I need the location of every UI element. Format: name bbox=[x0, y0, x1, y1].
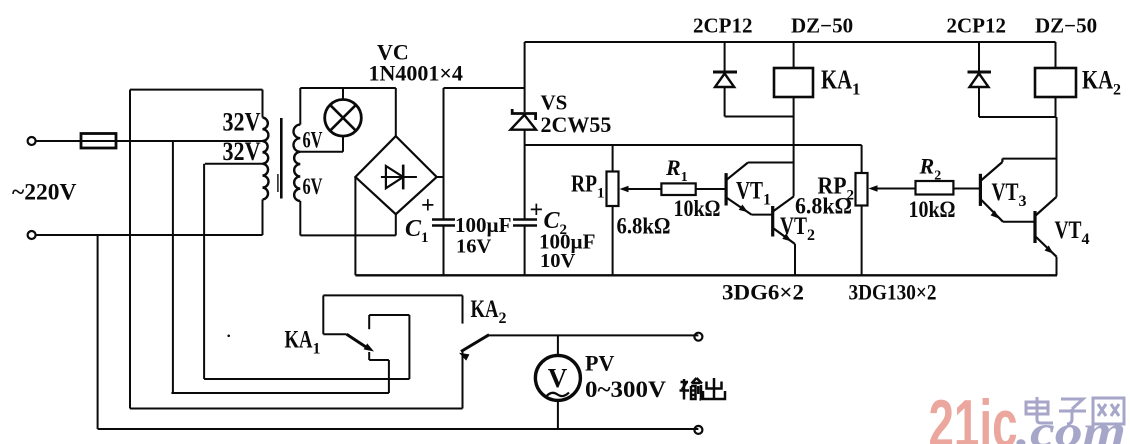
svg-text:PV: PV bbox=[585, 351, 614, 376]
svg-text:2CP12: 2CP12 bbox=[947, 14, 1007, 38]
svg-text:32V: 32V bbox=[223, 137, 261, 166]
svg-text:~220V: ~220V bbox=[12, 180, 76, 206]
svg-text:0~300V: 0~300V bbox=[585, 377, 666, 402]
svg-text:DZ−50: DZ−50 bbox=[791, 14, 853, 38]
svg-text:10kΩ: 10kΩ bbox=[674, 196, 721, 221]
svg-text:6.8kΩ: 6.8kΩ bbox=[617, 214, 671, 239]
svg-text:6V: 6V bbox=[303, 128, 323, 153]
svg-text:3DG6×2: 3DG6×2 bbox=[722, 280, 804, 305]
svg-text:+: + bbox=[421, 193, 435, 219]
svg-text:1N4001×4: 1N4001×4 bbox=[369, 61, 463, 86]
svg-text:16V: 16V bbox=[456, 236, 492, 258]
svg-text:2CW55: 2CW55 bbox=[541, 112, 612, 137]
svg-text:.com: .com bbox=[1016, 407, 1126, 444]
svg-text:100µF: 100µF bbox=[455, 213, 511, 237]
svg-text:6V: 6V bbox=[303, 174, 323, 199]
svg-text:V: V bbox=[548, 363, 568, 393]
svg-text:+: + bbox=[530, 198, 544, 224]
svg-text:10kΩ: 10kΩ bbox=[909, 197, 956, 222]
svg-text:21ic: 21ic bbox=[929, 386, 1018, 444]
svg-text:DZ−50: DZ−50 bbox=[1035, 14, 1097, 38]
svg-text:VS: VS bbox=[541, 91, 568, 115]
svg-text:10V: 10V bbox=[540, 250, 576, 272]
svg-text:2CP12: 2CP12 bbox=[693, 14, 753, 38]
svg-text:6.8kΩ: 6.8kΩ bbox=[795, 194, 852, 219]
svg-text:32V: 32V bbox=[223, 108, 261, 137]
svg-text:3DG130×2: 3DG130×2 bbox=[849, 280, 937, 305]
